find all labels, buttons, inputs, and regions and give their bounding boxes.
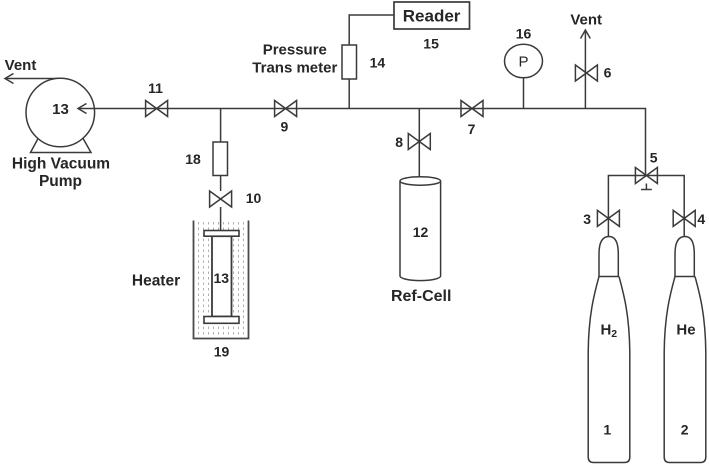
ref-cell cylinder 12: [400, 181, 441, 281]
tube top cap: [204, 231, 239, 237]
wire: vent line left from pump top: [6, 78, 60, 80]
trap/filter 18: [213, 142, 228, 176]
svg-text:13: 13: [214, 270, 230, 286]
sample tube 13 body: [212, 236, 232, 316]
H2 cylinder neck dome: [599, 237, 618, 277]
svg-text:1: 1: [603, 421, 611, 437]
svg-text:9: 9: [281, 119, 289, 135]
svg-text:15: 15: [423, 36, 439, 52]
svg-text:Trans meter: Trans meter: [252, 59, 337, 76]
valve 5 stem with tee: [645, 184, 647, 190]
svg-text:Vent: Vent: [5, 57, 37, 74]
H2 cylinder 1 body: [588, 277, 630, 463]
He cylinder neck dome: [675, 237, 694, 277]
svg-text:High Vacuum: High Vacuum: [12, 156, 110, 173]
svg-text:Reader: Reader: [403, 7, 461, 26]
wire: trap 18 to valve 10: [220, 176, 222, 192]
svg-text:13: 13: [52, 101, 69, 118]
svg-text:16: 16: [516, 26, 532, 42]
wire: main manifold line from pump into right corner: [78, 109, 646, 176]
arrowhead vent left: [5, 74, 14, 84]
wire: vent riser right with valve 6: [584, 31, 586, 109]
wire: suction line entering pump with arrowhead: [78, 108, 95, 110]
svg-text:8: 8: [395, 134, 403, 150]
wire: valve 10 into heater tube: [220, 207, 222, 231]
valve V9: [275, 101, 297, 117]
pressure gauge 16: [505, 44, 543, 78]
He cylinder 2 body: [664, 277, 706, 463]
pump base (trapezoid): [31, 133, 92, 153]
svg-text:3: 3: [583, 211, 591, 227]
tube bottom cap: [204, 317, 239, 324]
svg-text:4: 4: [697, 211, 705, 227]
svg-text:Ref-Cell: Ref-Cell: [391, 288, 451, 305]
svg-text:19: 19: [214, 343, 230, 359]
valve V3: [597, 210, 619, 226]
svg-text:11: 11: [148, 80, 163, 96]
svg-text:6: 6: [604, 65, 612, 81]
svg-text:14: 14: [370, 55, 386, 71]
svg-text:Pressure: Pressure: [263, 42, 327, 59]
wire: branch down to valve 8 and ref-cell: [418, 109, 420, 182]
wire: transmitter to reader: [349, 15, 394, 45]
wire: branch down to trap 18: [220, 109, 222, 143]
svg-text:Vent: Vent: [570, 12, 602, 29]
heater pattern (dashed hatch): [199, 222, 244, 336]
svg-text:5: 5: [650, 149, 658, 165]
pressure transmitter 14: [342, 45, 357, 79]
wire: transmitter stem down to main line: [348, 45, 350, 109]
valve V5: [635, 168, 657, 184]
reader box 15: [394, 2, 470, 29]
pump circle (high vacuum pump): [26, 78, 95, 147]
svg-text:7: 7: [468, 121, 476, 137]
svg-text:P: P: [518, 54, 528, 71]
svg-text:Heater: Heater: [132, 272, 180, 289]
valve V7: [461, 101, 483, 117]
svg-text:2: 2: [681, 421, 689, 437]
svg-text:18: 18: [185, 151, 201, 167]
svg-text:He: He: [676, 322, 695, 339]
wire: cylinder header line through valve 5: [608, 176, 684, 239]
wire: gauge stem: [523, 78, 525, 109]
heater box 19 (open top): [194, 221, 249, 339]
svg-text:Pump: Pump: [39, 173, 82, 190]
arrowhead vent up: [581, 30, 591, 39]
svg-text:10: 10: [246, 190, 262, 206]
valve V8: [408, 134, 430, 150]
valve V10: [210, 191, 232, 207]
svg-text:12: 12: [413, 224, 429, 240]
valve V6: [575, 65, 597, 81]
valve V4: [673, 210, 695, 226]
valve V11: [146, 101, 168, 117]
